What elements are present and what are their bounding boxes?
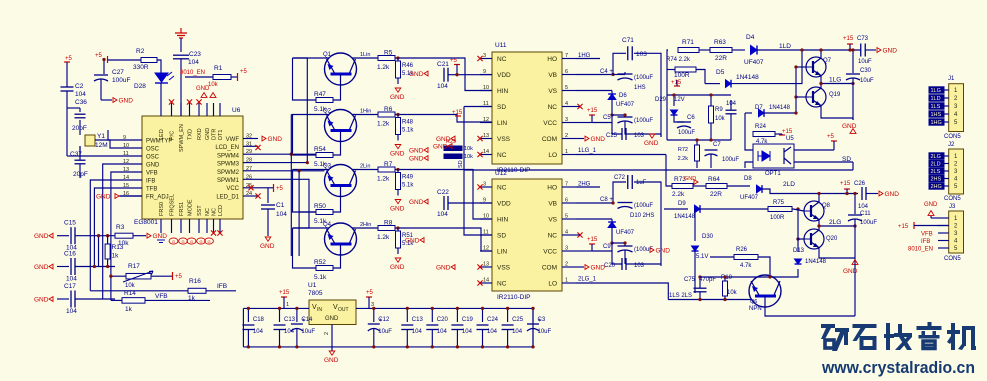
svg-text:GND: GND: [591, 136, 606, 143]
svg-text:UF407: UF407: [616, 102, 635, 108]
svg-text:U5: U5: [786, 136, 794, 142]
wire crystal to OSC pins: [95, 140, 120, 148]
wire: [79, 164, 81, 178]
svg-text:VDD: VDD: [497, 201, 511, 208]
svg-text:TFB: TFB: [146, 187, 157, 193]
wire U12 VS: [576, 218, 612, 220]
svg-text:1k: 1k: [188, 295, 196, 302]
svg-text:C21: C21: [437, 61, 449, 68]
transistor Q4: [325, 223, 357, 255]
LED D28: [155, 73, 168, 82]
svg-text:C72: C72: [614, 175, 626, 181]
svg-text:HO: HO: [547, 185, 557, 192]
svg-text:NC: NC: [497, 152, 507, 159]
wire base rung: [293, 115, 317, 156]
wire opt left pins: [745, 113, 753, 150]
svg-text:1.2k: 1.2k: [377, 121, 390, 128]
svg-text:R17: R17: [128, 263, 140, 270]
svg-text:C23: C23: [189, 51, 201, 58]
capacitor C27 100uF: [94, 74, 108, 76]
svg-text:D4: D4: [746, 34, 755, 41]
wire Q19 base: [796, 96, 806, 98]
diode D4 UF407: [732, 49, 745, 51]
U11 right pins: [562, 58, 576, 60]
svg-text:10k: 10k: [464, 154, 473, 160]
transistor Q19: [806, 87, 826, 107]
svg-text:2.2k: 2.2k: [678, 156, 689, 162]
ground between R73 R64: [694, 180, 698, 185]
svg-text:Q4: Q4: [323, 222, 332, 228]
svg-text:330R: 330R: [133, 64, 149, 71]
wire SPWM2 route: [258, 170, 325, 172]
svg-text:C36: C36: [75, 99, 87, 106]
svg-text:D6: D6: [619, 93, 627, 99]
svg-text:104: 104: [188, 59, 199, 66]
svg-text:5.1k: 5.1k: [402, 128, 414, 134]
svg-text:104: 104: [253, 329, 264, 335]
svg-text:5.1V: 5.1V: [696, 254, 708, 260]
svg-text:C15: C15: [64, 220, 76, 227]
svg-text:R5: R5: [384, 50, 393, 57]
svg-text:1k: 1k: [125, 306, 133, 313]
wire: [107, 59, 110, 61]
capacitor C18 104: [247, 308, 249, 322]
svg-text:C20: C20: [604, 263, 616, 269]
resistor R71: [678, 48, 699, 53]
capacitor C13 104: [406, 308, 408, 322]
svg-text:SD: SD: [497, 104, 506, 111]
svg-text:(100uF: (100uF: [634, 118, 653, 124]
svg-text:FR_ADJ: FR_ADJ: [146, 195, 169, 201]
svg-text:R54: R54: [314, 146, 326, 153]
svg-text:100uF: 100uF: [678, 130, 695, 136]
svg-text:VCC: VCC: [543, 120, 557, 127]
svg-text:2Lin: 2Lin: [360, 164, 370, 170]
svg-text:2HS: 2HS: [931, 177, 942, 183]
svg-text:100uF: 100uF: [860, 220, 877, 226]
svg-text:GND: GND: [924, 202, 938, 208]
wire: [267, 209, 269, 236]
svg-text:C5: C5: [603, 115, 611, 121]
svg-text:2LG: 2LG: [931, 154, 941, 160]
wire R3 row to C16 row: [98, 236, 100, 267]
svg-text:MODE: MODE: [188, 199, 194, 216]
resistor R73 2.2k: [672, 184, 693, 189]
svg-text:HIN: HIN: [497, 217, 509, 224]
svg-text:C17: C17: [64, 283, 76, 290]
resistor R5 1.2k: [352, 57, 378, 59]
X marks VCC and LED_D1: [248, 185, 253, 190]
wire: [160, 83, 162, 103]
wire after resistor: [395, 169, 420, 171]
svg-text:10: 10: [483, 85, 489, 91]
capacitor C25 104: [507, 308, 509, 322]
ground right of C25: [649, 134, 655, 138]
svg-text:VFB: VFB: [155, 293, 168, 300]
svg-text:D7: D7: [755, 105, 763, 111]
svg-text:10: 10: [123, 143, 129, 149]
ground below: [395, 200, 401, 204]
svg-text:1Lin: 1Lin: [360, 52, 370, 58]
svg-text:27: 27: [246, 166, 252, 172]
svg-text:VDD: VDD: [497, 72, 511, 79]
svg-text:12M: 12M: [95, 142, 108, 149]
earth ground top: [175, 28, 187, 38]
svg-text:Q2: Q2: [323, 109, 332, 115]
svg-text:P/C: P/C: [170, 131, 176, 140]
svg-text:UF407: UF407: [740, 195, 759, 201]
svg-text:R46: R46: [402, 63, 414, 69]
U6 left pins: [120, 139, 142, 141]
svg-text:15: 15: [123, 183, 129, 189]
svg-text:31: 31: [246, 141, 252, 147]
svg-text:VWF: VWF: [226, 137, 240, 143]
svg-text:G: G: [190, 239, 193, 244]
svg-text:+15: +15: [452, 110, 463, 116]
svg-text:26: 26: [246, 174, 252, 180]
resistor R47 5.1k: [316, 98, 333, 103]
svg-text:10uF: 10uF: [860, 78, 874, 84]
resistor R46 5.1k vertical: [396, 61, 401, 78]
wire R2 to D28: [157, 60, 161, 73]
svg-text:10uF: 10uF: [858, 59, 872, 65]
svg-text:CON5: CON5: [944, 196, 961, 202]
svg-text:5.1k: 5.1k: [314, 274, 327, 281]
svg-text:GND: GND: [153, 233, 168, 240]
svg-text:7805: 7805: [308, 290, 323, 297]
svg-text:GND: GND: [325, 316, 339, 322]
wire after resistor: [395, 57, 420, 59]
svg-text:C16: C16: [64, 251, 76, 258]
svg-text:DT1: DT1: [218, 130, 224, 140]
svg-text:U6: U6: [232, 107, 241, 114]
svg-text:LO: LO: [548, 152, 557, 159]
capacitor C25 103: [621, 128, 623, 140]
svg-text:U1: U1: [308, 282, 317, 289]
svg-text:C12: C12: [378, 317, 390, 323]
svg-text:1LS: 1LS: [931, 104, 941, 110]
svg-text:VSS: VSS: [497, 136, 511, 143]
svg-text:28: 28: [246, 158, 252, 164]
svg-text:12: 12: [123, 159, 129, 165]
ground below C1: [265, 237, 271, 241]
capacitor C2 104: [61, 86, 74, 88]
svg-text:OPT1: OPT1: [765, 171, 781, 177]
svg-text:LED_D1: LED_D1: [216, 194, 239, 200]
ground symbols and caps C15 C16 C17: [49, 233, 53, 238]
wire base row 3: [293, 169, 329, 171]
ground U12 VSS: [451, 265, 455, 270]
U6 top pins: [160, 103, 162, 116]
svg-text:103: 103: [634, 133, 645, 139]
svg-text:IFB: IFB: [921, 239, 930, 245]
wire base rung: [293, 170, 317, 213]
wire base to Q20: [798, 209, 804, 239]
svg-text:NC: NC: [497, 281, 507, 288]
svg-text:7: 7: [565, 182, 568, 188]
svg-text:10uF: 10uF: [538, 329, 552, 335]
svg-text:NC: NC: [497, 185, 507, 192]
svg-text:GND: GND: [34, 297, 49, 304]
wire Q19 emitter to ground: [821, 106, 853, 120]
capacitor C12 10uF: [373, 308, 375, 322]
ground below C11: [852, 260, 858, 265]
svg-text:SPWM3: SPWM3: [217, 162, 240, 168]
svg-text:(100uF: (100uF: [634, 203, 653, 209]
ground right of C73: [865, 49, 876, 51]
wire to R71 left: [667, 50, 668, 70]
svg-text:+5: +5: [366, 290, 374, 296]
svg-text:+15: +15: [587, 108, 598, 114]
ground label channel: [448, 144, 452, 149]
svg-text:14: 14: [483, 278, 489, 284]
svg-text:NC: NC: [497, 56, 507, 63]
resistor R14 1k: [122, 298, 145, 304]
svg-text:R52: R52: [314, 259, 326, 266]
SD net vertical: [464, 106, 492, 108]
resistor R6 1.2k: [352, 114, 378, 116]
power +5 rail top-left: [64, 61, 70, 63]
net 2LG_1 from U12 LO: [576, 282, 660, 284]
wire Q8 base path: [700, 208, 793, 210]
svg-text:12: 12: [483, 117, 489, 123]
svg-text:C14: C14: [301, 317, 313, 323]
wire base rung: [293, 228, 317, 268]
diode D5 1N4148: [705, 83, 720, 85]
svg-text:GND: GND: [684, 176, 696, 182]
svg-text:GND: GND: [436, 136, 451, 143]
wire SPWM3 route: [258, 58, 307, 163]
svg-text:R64: R64: [708, 176, 720, 183]
svg-text:R48: R48: [402, 120, 414, 126]
svg-text:LED: LED: [159, 129, 165, 140]
svg-text:SPWM1: SPWM1: [217, 178, 240, 184]
svg-text:3: 3: [565, 117, 568, 123]
svg-text:10k: 10k: [125, 283, 136, 289]
svg-text:5: 5: [565, 85, 568, 91]
svg-text:2: 2: [324, 332, 330, 335]
wire: [79, 146, 81, 160]
svg-text:R6: R6: [384, 106, 393, 113]
svg-text:7: 7: [565, 53, 568, 59]
op-amp U12 IR2110 body: [492, 179, 562, 291]
svg-text:+5: +5: [827, 134, 835, 140]
svg-text:OSC: OSC: [146, 147, 160, 153]
svg-text:+5: +5: [240, 69, 248, 75]
svg-text:4: 4: [565, 101, 568, 107]
svg-text:10k: 10k: [727, 290, 738, 296]
svg-text:11: 11: [483, 230, 489, 236]
svg-text:C26: C26: [854, 181, 866, 187]
wire after resistor: [395, 114, 420, 116]
wire U12 VB: [576, 202, 613, 204]
svg-text:Y1: Y1: [97, 133, 105, 140]
svg-text:R63: R63: [714, 39, 726, 46]
svg-text:COM: COM: [542, 136, 557, 143]
wire bus y140: [667, 139, 731, 141]
ground right of C26: [866, 193, 878, 195]
svg-text:103: 103: [636, 51, 647, 58]
X mark U11 NC pin4: [577, 104, 582, 109]
watermark crystalradio chinese glyphs: [821, 324, 835, 328]
transistor Q7: [806, 57, 826, 77]
X mark U12 NC pin4: [577, 232, 582, 237]
svg-text:C4 +: C4 +: [600, 69, 613, 75]
svg-text:LIN: LIN: [497, 249, 507, 256]
svg-text:+15: +15: [279, 290, 290, 296]
svg-text:VB: VB: [548, 201, 557, 208]
svg-text:NC: NC: [548, 104, 558, 111]
svg-text:OSC: OSC: [146, 155, 160, 161]
capacitor C23 104: [173, 54, 189, 56]
wire VS: [576, 90, 612, 92]
svg-text:GND: GND: [433, 144, 448, 151]
svg-text:104: 104: [512, 329, 523, 335]
wire 2LG_1 down: [660, 283, 668, 300]
svg-text:LCD_EN: LCD_EN: [215, 145, 239, 151]
resistor R48 5.1k vertical: [396, 118, 401, 135]
svg-text:Q1: Q1: [323, 52, 332, 58]
svg-text:VCC: VCC: [543, 249, 557, 256]
wire base row 1: [293, 57, 329, 59]
svg-text:Q19: Q19: [829, 92, 841, 98]
svg-text:GND: GND: [146, 163, 160, 169]
resistor R51 5.1k vertical: [396, 231, 401, 248]
capacitor C34 104: [726, 109, 737, 111]
svg-text:1HS: 1HS: [931, 112, 942, 118]
ground below: [395, 88, 401, 92]
U12 left pins: [480, 186, 492, 188]
svg-text:100uF: 100uF: [722, 157, 739, 163]
net 2LG: [819, 220, 855, 226]
svg-text:100R: 100R: [674, 72, 690, 79]
svg-text:C24: C24: [487, 317, 499, 323]
svg-text:UF407: UF407: [744, 59, 764, 66]
resistor R17 10k potentiometer: [126, 273, 151, 279]
resistor R13 1k: [106, 234, 109, 237]
svg-text:12V: 12V: [674, 97, 685, 103]
svg-text:D9: D9: [678, 201, 686, 207]
svg-text:CON5: CON5: [944, 256, 961, 262]
diode D6 UF407: [611, 91, 613, 95]
svg-text:G: G: [172, 239, 175, 244]
svg-text:R71: R71: [682, 39, 694, 46]
svg-text:C9: C9: [603, 244, 611, 250]
red GND symbols below U6 bottom pins: [157, 240, 165, 243]
diode D13 1N4148: [797, 239, 799, 252]
capacitor C5 100uF: [618, 116, 633, 118]
svg-text:9: 9: [483, 69, 486, 75]
svg-text:4.7k: 4.7k: [740, 263, 752, 269]
svg-text:VS: VS: [548, 217, 557, 224]
svg-text:C2: C2: [75, 83, 84, 90]
svg-text:104: 104: [462, 329, 473, 335]
svg-text:R47: R47: [314, 91, 326, 98]
svg-text:GND: GND: [885, 191, 900, 198]
capacitor C26 104: [861, 187, 863, 200]
svg-text:GND: GND: [409, 156, 424, 163]
wire VCC to C1: [267, 188, 269, 203]
svg-text:FRQSEL: FRQSEL: [170, 194, 176, 216]
svg-text:VSS: VSS: [497, 265, 511, 272]
svg-text:10k: 10k: [715, 116, 726, 122]
svg-text:1N4148: 1N4148: [805, 259, 827, 265]
svg-text:2LS: 2LS: [931, 169, 941, 175]
svg-text:1uF: 1uF: [636, 180, 647, 186]
svg-text:GND: GND: [656, 248, 671, 255]
svg-text:100R: 100R: [770, 215, 785, 221]
power +5 at U6 VCC: [258, 187, 273, 189]
svg-text:+15: +15: [843, 36, 854, 42]
svg-text:+15: +15: [671, 80, 682, 86]
svg-text:13: 13: [483, 262, 489, 268]
svg-text:6: 6: [565, 198, 568, 204]
wire: [180, 38, 182, 52]
svg-text:C71: C71: [622, 37, 634, 44]
svg-text:OUT: OUT: [338, 307, 349, 313]
wire Q20 emitter: [819, 248, 855, 258]
svg-text:+5: +5: [95, 53, 103, 59]
capacitor C3 10uF: [532, 308, 534, 322]
svg-text:C22: C22: [437, 189, 449, 196]
wire SPWM1 route: [258, 179, 309, 228]
diode D7 1N4148: [745, 112, 752, 114]
svg-text:VS: VS: [548, 88, 557, 95]
power +15 at U12 VCC: [576, 250, 592, 252]
svg-text:1.2k: 1.2k: [377, 176, 390, 183]
op-amp U6 EG8001 body: [142, 116, 243, 219]
crystal Y1 12M: [85, 135, 95, 146]
svg-text:GND: GND: [436, 265, 451, 272]
svg-text:R9: R9: [715, 107, 723, 113]
svg-text:1: 1: [286, 302, 289, 308]
svg-text:www.crystalradio.cn: www.crystalradio.cn: [821, 358, 975, 377]
svg-text:Q8: Q8: [822, 203, 831, 209]
wire: [67, 107, 80, 109]
U11 left pins: [480, 58, 492, 60]
svg-text:LO: LO: [548, 281, 557, 288]
svg-text:104: 104: [437, 211, 448, 218]
svg-text:10uF: 10uF: [301, 329, 315, 335]
svg-text:R75: R75: [773, 200, 785, 206]
wire Q7 base: [796, 66, 806, 68]
svg-text:IFB: IFB: [217, 283, 227, 290]
svg-text:C27: C27: [112, 69, 124, 76]
svg-text:GND: GND: [409, 71, 424, 78]
svg-text:D29: D29: [655, 97, 667, 103]
svg-text:J3: J3: [949, 204, 956, 210]
svg-text:R8: R8: [384, 220, 393, 227]
svg-text:+15: +15: [587, 237, 598, 243]
svg-text:3: 3: [483, 182, 486, 188]
svg-text:2LG: 2LG: [829, 219, 841, 226]
capacitor C37 20pF: [75, 159, 86, 161]
X mark U11 NC pin14: [477, 152, 482, 157]
svg-text:14: 14: [123, 175, 129, 181]
svg-text:103: 103: [634, 263, 645, 269]
svg-text:G: G: [199, 239, 202, 244]
svg-text:GND: GND: [390, 151, 405, 158]
svg-text:GND: GND: [409, 199, 424, 206]
capacitor C71 103: [613, 53, 626, 74]
ground below: [395, 145, 401, 149]
ground right of C20: [650, 248, 654, 253]
X mark U11 NC pin3: [477, 56, 482, 61]
svg-text:1N4148: 1N4148: [769, 105, 791, 111]
X marks U12: [477, 184, 482, 189]
svg-text:C25: C25: [606, 133, 618, 139]
transistor Q3: [325, 165, 357, 197]
